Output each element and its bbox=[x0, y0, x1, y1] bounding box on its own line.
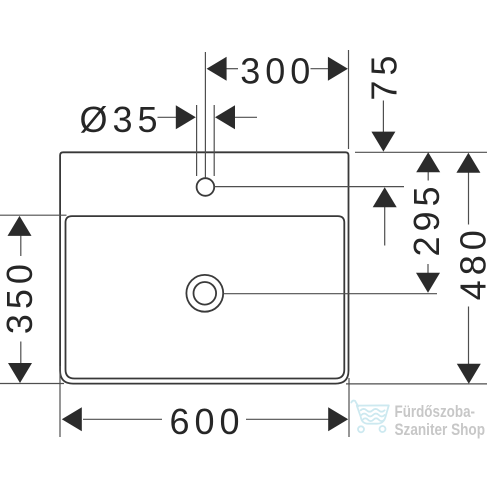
svg-text:300: 300 bbox=[240, 51, 315, 92]
svg-text:Szaniter Shop: Szaniter Shop bbox=[395, 420, 486, 439]
svg-text:Ø35: Ø35 bbox=[80, 99, 163, 140]
svg-text:295: 295 bbox=[406, 181, 447, 256]
svg-text:Fürdőszoba-: Fürdőszoba- bbox=[395, 402, 476, 421]
svg-text:350: 350 bbox=[0, 259, 40, 334]
svg-text:480: 480 bbox=[453, 225, 490, 300]
svg-text:600: 600 bbox=[170, 401, 245, 442]
svg-text:75: 75 bbox=[363, 51, 404, 101]
